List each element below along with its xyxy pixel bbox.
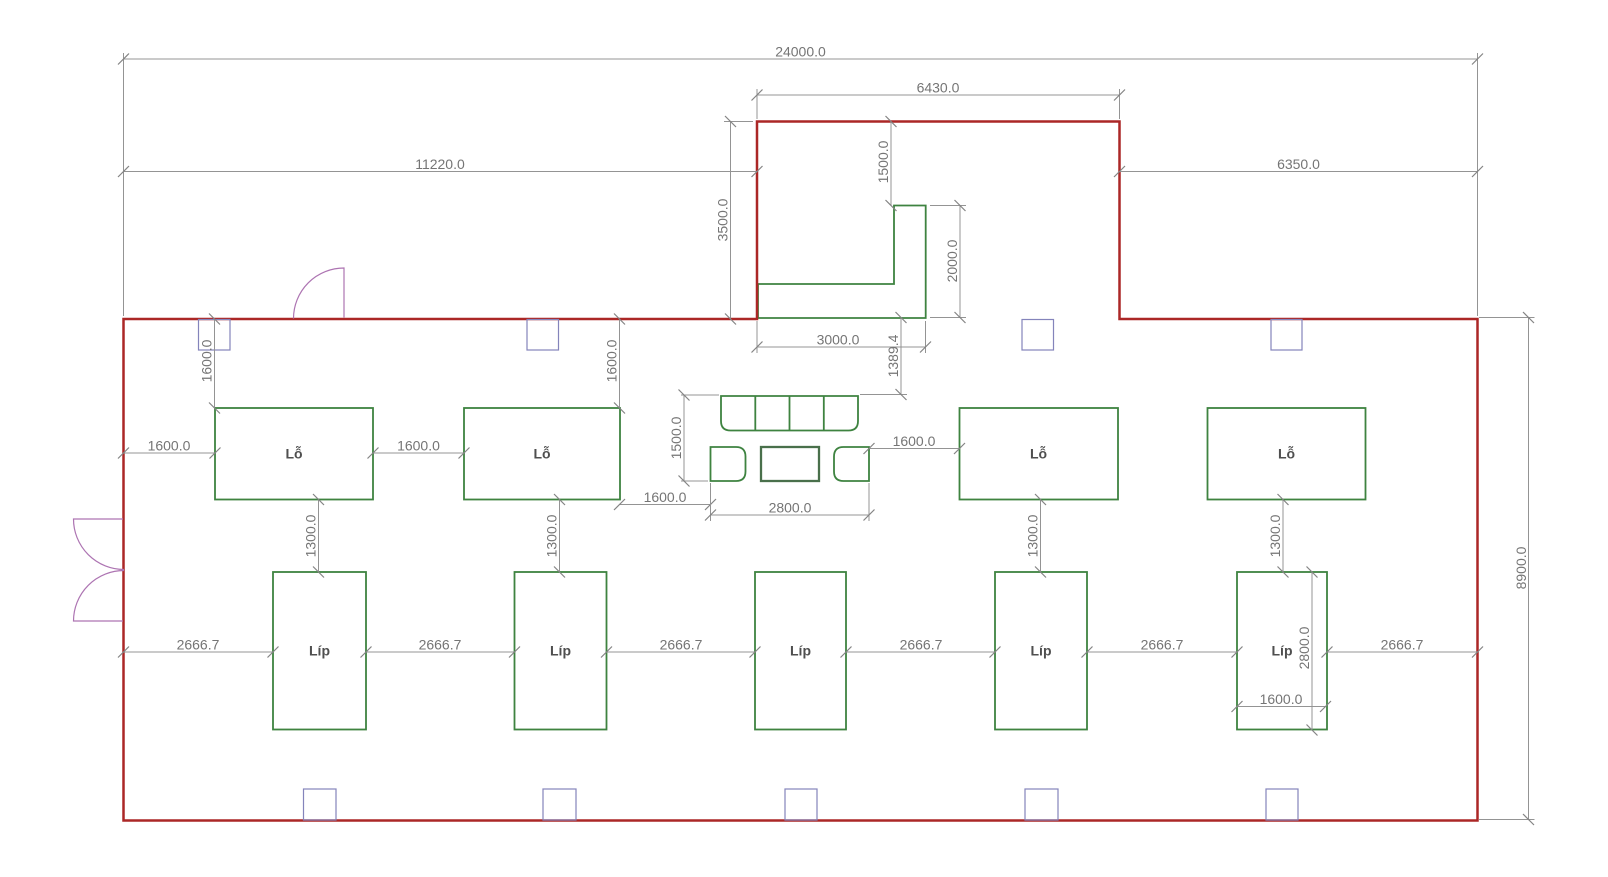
dim 1500.0 vertical sofa (668, 390, 719, 487)
svg-text:Lỗ: Lỗ (285, 446, 302, 462)
room Lo 2 (464, 408, 620, 500)
dim 2666.7 b2 (361, 637, 521, 658)
room Lo 1 (215, 408, 373, 500)
svg-text:6350.0: 6350.0 (1277, 156, 1320, 172)
column bottom 3 (785, 789, 817, 820)
door top wall (294, 268, 345, 319)
svg-text:Líp: Líp (550, 643, 571, 659)
room Lip 3 (755, 572, 846, 730)
svg-text:Líp: Líp (1272, 643, 1293, 659)
svg-text:2666.7: 2666.7 (900, 637, 943, 653)
svg-text:1600.0: 1600.0 (1260, 691, 1303, 707)
dim 6430.0 (752, 80, 1126, 120)
dim 2666.7 b6 (1322, 637, 1484, 658)
svg-text:11220.0: 11220.0 (415, 156, 465, 172)
svg-text:1500.0: 1500.0 (875, 140, 891, 183)
dim 24000.0 top (118, 44, 1483, 317)
svg-text:6430.0: 6430.0 (917, 80, 960, 96)
svg-text:1500.0: 1500.0 (668, 416, 684, 459)
dim 3000.0 (752, 321, 932, 353)
dim 2800.0 sofa (705, 483, 875, 521)
dim 8900.0 vertical right (1479, 312, 1535, 825)
armchair left (711, 447, 746, 481)
dim 1600.0 Lip5 (1232, 691, 1332, 712)
dim 1300.0 v1 (303, 494, 325, 578)
svg-text:1600.0: 1600.0 (148, 438, 191, 454)
dim 1500.0 vertical porch (875, 116, 897, 211)
column bottom 4 (1025, 789, 1058, 820)
column top 2 (527, 320, 559, 351)
column top 3 (1022, 320, 1054, 351)
dim 1600.0 vertical mid (604, 314, 626, 414)
svg-text:Líp: Líp (790, 643, 811, 659)
sofa divider 3 (823, 396, 825, 431)
svg-text:1600.0: 1600.0 (397, 438, 440, 454)
dim 1600.0 vertical left (199, 314, 221, 414)
svg-text:2800.0: 2800.0 (769, 500, 812, 516)
column bottom 2 (543, 789, 576, 820)
dim 2800.0 vertical Lip5 (1296, 567, 1318, 736)
svg-text:2000.0: 2000.0 (944, 239, 960, 282)
double door left wall leaf 2 (74, 571, 125, 622)
svg-text:1300.0: 1300.0 (1267, 514, 1283, 557)
dim 1600.0 h3 (614, 489, 716, 510)
room Lip 5 (1237, 572, 1327, 730)
svg-text:1600.0: 1600.0 (893, 433, 936, 449)
svg-text:Líp: Líp (309, 643, 330, 659)
green room in porch (758, 206, 926, 319)
svg-text:2666.7: 2666.7 (177, 637, 220, 653)
room Lip 4 (995, 572, 1087, 730)
svg-text:2666.7: 2666.7 (660, 637, 703, 653)
svg-text:2666.7: 2666.7 (1141, 637, 1184, 653)
dim 2666.7 b1 (118, 637, 279, 658)
svg-text:24000.0: 24000.0 (775, 44, 826, 60)
svg-text:1300.0: 1300.0 (544, 514, 560, 557)
column top 1 (199, 320, 231, 351)
dim 1600.0 h2 (368, 438, 470, 459)
svg-text:Lỗ: Lỗ (1278, 446, 1295, 462)
dim 1600.0 h1 (118, 438, 221, 459)
dim 1389.4 vertical (860, 312, 907, 400)
svg-text:1300.0: 1300.0 (303, 514, 319, 557)
column top 4 (1271, 320, 1302, 351)
coffee table (761, 447, 819, 481)
svg-text:1300.0: 1300.0 (1025, 514, 1041, 557)
svg-text:8900.0: 8900.0 (1513, 546, 1529, 589)
room Lo 3 (960, 408, 1119, 500)
double door left wall leaf 1 (74, 519, 125, 570)
sofa (721, 396, 858, 431)
dim 2666.7 b3 (601, 637, 761, 658)
dim 1300.0 v3 (1025, 494, 1047, 578)
svg-text:1600.0: 1600.0 (199, 339, 215, 382)
column bottom 5 (1266, 789, 1298, 820)
svg-text:2666.7: 2666.7 (419, 637, 462, 653)
dim 11220.0 (118, 156, 763, 177)
dim 1600.0 h4 (864, 433, 966, 454)
room Lip 2 (515, 572, 607, 730)
wall outline (red) (124, 122, 1478, 821)
armchair right (834, 447, 869, 481)
sofa divider 1 (754, 396, 756, 431)
room Lip 1 (273, 572, 366, 730)
column bottom 1 (304, 789, 337, 820)
dim 3500.0 vertical (715, 116, 754, 325)
svg-text:3500.0: 3500.0 (715, 198, 731, 241)
dim 2000.0 vertical (930, 200, 966, 323)
svg-text:2666.7: 2666.7 (1381, 637, 1424, 653)
svg-text:1600.0: 1600.0 (604, 339, 620, 382)
dim 2666.7 b4 (841, 637, 1001, 658)
svg-text:3000.0: 3000.0 (817, 332, 860, 348)
dim 2666.7 b5 (1082, 637, 1243, 658)
dim 6350.0 (1114, 156, 1483, 177)
dim 1300.0 v2 (544, 494, 566, 578)
svg-text:2800.0: 2800.0 (1296, 626, 1312, 669)
svg-text:Lỗ: Lỗ (1030, 446, 1047, 462)
svg-text:1600.0: 1600.0 (644, 489, 687, 505)
svg-text:1389.4: 1389.4 (885, 334, 901, 377)
svg-text:Lỗ: Lỗ (533, 446, 550, 462)
dim 1300.0 v4 (1267, 494, 1289, 578)
room Lo 4 (1208, 408, 1366, 500)
sofa divider 2 (789, 396, 791, 431)
svg-text:Líp: Líp (1031, 643, 1052, 659)
